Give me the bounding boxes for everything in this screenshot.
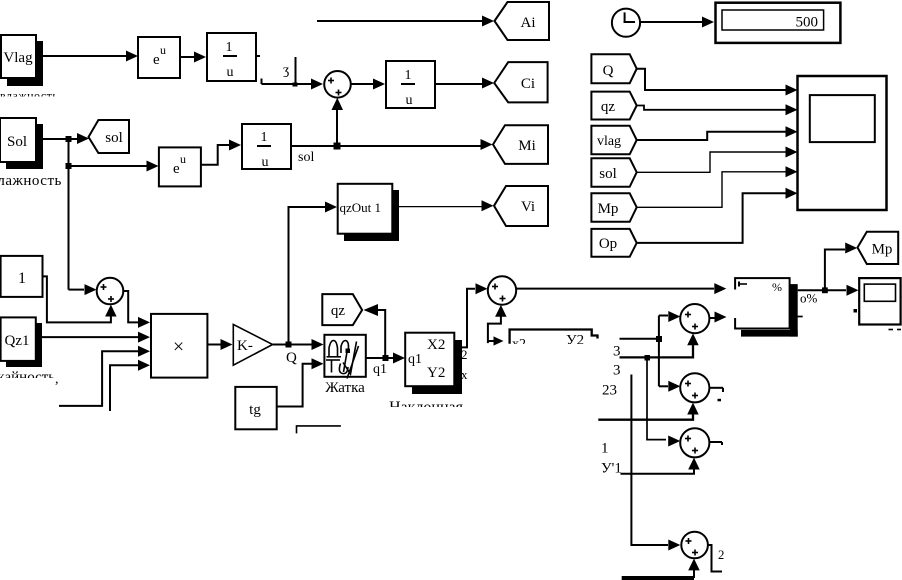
block constant 1	[1, 256, 43, 297]
svg-text:e: e	[153, 52, 160, 68]
Zhatka icon	[326, 341, 359, 379]
wire qz to scope	[637, 106, 786, 110]
wire sol-junction into sum2	[69, 289, 85, 291]
block integrator 1/u #2	[386, 61, 435, 108]
wire sum3 out to block pct	[516, 288, 714, 290]
from tag qz	[591, 92, 636, 120]
sumA bottom input	[687, 333, 699, 345]
wire product to gain	[207, 344, 221, 346]
svg-text:Qz1: Qz1	[5, 333, 30, 349]
wire int3 to Mi	[291, 145, 481, 147]
sumC out fragment	[709, 441, 722, 443]
svg-text:q1: q1	[408, 352, 422, 367]
corner fragment below tg	[297, 426, 341, 434]
wire into sumA	[659, 315, 668, 317]
svg-text:о%: о%	[800, 291, 818, 306]
wire junction down	[68, 139, 70, 290]
wire sum1 to int2	[351, 83, 374, 85]
svg-text:Ci: Ci	[521, 76, 535, 92]
svg-text:У'1: У'1	[601, 461, 622, 477]
wire sum2 to product input1	[123, 291, 138, 322]
svg-text:qzOut 1: qzOut 1	[340, 200, 382, 215]
wire Mp to scope	[637, 172, 786, 208]
from tag Op	[591, 229, 636, 257]
svg-text:Op: Op	[599, 236, 617, 252]
wire tg to Zhatka input2	[277, 364, 312, 407]
svg-text:3: 3	[613, 363, 621, 379]
block Vlag shadow	[7, 41, 43, 86]
small arrow into covered block	[488, 340, 494, 342]
wire vertical x647 to sumC	[647, 357, 666, 439]
junction on Sol wire	[66, 136, 72, 142]
block scope1	[859, 278, 900, 324]
junction q1	[383, 355, 389, 361]
sumB out fragment	[709, 387, 723, 389]
block Zhatka	[324, 335, 365, 377]
sumA out arrow	[709, 317, 715, 319]
wire Op to scope	[637, 193, 786, 243]
svg-text:q1: q1	[373, 362, 387, 377]
wire up to Mp goto	[825, 250, 845, 291]
covered block fragment x2 X2	[510, 330, 598, 344]
svg-text:qz: qz	[601, 99, 616, 115]
label under Qz1 (clipped)	[0, 370, 55, 386]
svg-text:e: e	[173, 161, 180, 177]
svg-text:1: 1	[261, 130, 268, 145]
right tick on pct shadow	[790, 316, 803, 318]
svg-text:u: u	[262, 155, 269, 170]
block X2Y2 shadow	[412, 340, 462, 394]
sumA	[680, 304, 709, 333]
from tag Q	[591, 54, 636, 83]
wire gain to Zhatka input1	[273, 344, 312, 346]
from tag sol	[89, 120, 130, 153]
svg-text:Жатка: Жатка	[325, 380, 365, 396]
wire to Ai	[317, 20, 483, 22]
node Q junction	[286, 342, 292, 348]
block Qz1	[1, 317, 36, 361]
svg-text:u: u	[406, 93, 413, 108]
block Qz1 shadow	[6, 323, 42, 367]
wire Qz1 to product input2	[36, 336, 138, 338]
svg-text:1: 1	[601, 441, 609, 457]
wire vlag to scope	[637, 132, 786, 140]
svg-text:sol: sol	[599, 166, 617, 182]
label under Vlag (clipped)	[0, 89, 58, 103]
wire from Q node up to qzOut1	[289, 207, 328, 345]
goto tag Ai	[495, 2, 550, 40]
svg-text:3: 3	[613, 344, 621, 360]
svg-text:Mi: Mi	[518, 138, 536, 154]
wire int2 to Ci	[435, 83, 483, 85]
wire pct out	[798, 289, 846, 291]
wire product input4	[110, 365, 138, 411]
block integrator 1/u #1	[207, 33, 256, 81]
svg-text:1: 1	[18, 270, 26, 287]
block product x	[151, 314, 207, 378]
gain K-	[233, 324, 272, 365]
svg-text:Y2: Y2	[427, 365, 445, 381]
sumD out fragment	[708, 545, 722, 572]
block Sol shadow	[6, 124, 43, 169]
from tag sol2	[591, 158, 636, 187]
block eu2	[159, 147, 201, 186]
svg-text:500: 500	[796, 15, 819, 31]
goto tag Vi	[494, 186, 548, 226]
svg-text:K-: K-	[237, 338, 253, 354]
wire Q to scope	[637, 69, 786, 90]
svg-text:vlag: vlag	[597, 134, 621, 149]
svg-text:1: 1	[405, 68, 412, 83]
svg-text:Q: Q	[603, 63, 614, 79]
wire Sol to sol tag	[36, 138, 80, 140]
wire junction up to sum1	[336, 108, 338, 145]
sumD bottom input	[688, 559, 700, 571]
wire qzOut1 to Vi	[392, 206, 482, 208]
wire X2 output up to sum3	[459, 289, 475, 348]
sumC	[680, 428, 709, 457]
svg-text:,: ,	[55, 372, 59, 387]
svg-text:X2: X2	[427, 337, 445, 353]
sumD	[681, 532, 708, 559]
label under X2Y2 (clipped tops)	[389, 399, 464, 416]
junction 2	[66, 163, 72, 169]
sumC bottom input	[688, 458, 700, 470]
port label fragments right of X2Y2	[461, 347, 468, 382]
svg-text:2: 2	[461, 347, 468, 362]
wire junction to eu2	[69, 165, 148, 167]
svg-text:×: ×	[173, 336, 184, 358]
from tag vlag	[591, 126, 636, 155]
svg-text:Mp: Mp	[598, 201, 619, 217]
junction on 357 line	[645, 355, 651, 361]
svg-text:sol: sol	[105, 130, 123, 146]
wire junction to qz tag	[377, 310, 385, 358]
label under Sol (clipped left and bottom)	[0, 173, 62, 189]
svg-text:Mp: Mp	[872, 242, 893, 258]
sumB bottom input	[687, 403, 699, 415]
sum2	[97, 278, 124, 305]
wire line3a	[620, 338, 659, 340]
wire into sumB	[659, 385, 668, 387]
svg-text:Vi: Vi	[521, 199, 535, 215]
from tag Mp	[591, 193, 636, 222]
block X2Y2	[405, 333, 454, 387]
goto tag Ci	[494, 62, 547, 102]
block tg	[235, 387, 276, 429]
block pct (left edge partially covered)	[735, 278, 790, 328]
svg-text:u: u	[180, 152, 186, 166]
wire eu2 to int3	[201, 145, 231, 165]
block integrator 1/u #3	[242, 124, 291, 169]
wire clock to display	[640, 21, 703, 23]
svg-text:Q: Q	[286, 350, 297, 366]
svg-text:tg: tg	[249, 402, 261, 418]
svg-text:u: u	[227, 65, 234, 80]
wire sum3 bottom input	[495, 305, 507, 317]
goto tag Mp2	[858, 232, 899, 264]
junction	[656, 336, 662, 342]
svg-text:Vlag: Vlag	[3, 50, 33, 66]
block qzOut1 shadow	[344, 190, 399, 241]
block Sol	[0, 118, 36, 162]
block display 500	[716, 3, 841, 43]
block qzOut1	[338, 184, 393, 234]
svg-text:qz: qz	[331, 303, 346, 319]
block pct inner marks	[739, 283, 747, 285]
wire Zhatka out to X2Y2	[366, 357, 394, 359]
svg-text:%: %	[772, 280, 782, 294]
svg-text:Sol: Sol	[7, 134, 27, 150]
sum1	[324, 71, 351, 98]
clock	[612, 9, 640, 37]
sumB	[680, 373, 709, 402]
wire const1 to sum2 bottom	[43, 276, 111, 322]
svg-text:u: u	[160, 43, 166, 57]
block eu1	[138, 37, 180, 78]
junction on sol wire	[334, 143, 341, 150]
svg-text:1: 1	[226, 40, 233, 55]
wire Vlag to eu1	[36, 55, 128, 57]
svg-text:Ai: Ai	[521, 15, 536, 31]
goto tag qz	[322, 294, 362, 325]
wire sol2 to scope	[637, 152, 786, 172]
block scope	[798, 76, 887, 210]
block pct shadow	[790, 284, 798, 337]
block Vlag	[1, 35, 36, 78]
wire product input3	[59, 351, 138, 406]
wire elbow from int1 to sum1	[261, 79, 263, 85]
svg-text:ʒ: ʒ	[283, 63, 289, 78]
wire vertical to sumA and sumB	[658, 316, 660, 387]
sum3	[488, 276, 516, 304]
wire vertical x632 down to sumD	[631, 375, 668, 546]
goto tag Mi	[493, 125, 548, 164]
wire eu1 to int1	[180, 56, 196, 58]
svg-text:23: 23	[602, 383, 617, 399]
junction	[822, 287, 828, 293]
svg-text:х: х	[461, 367, 468, 382]
svg-text:sol: sol	[298, 150, 314, 165]
